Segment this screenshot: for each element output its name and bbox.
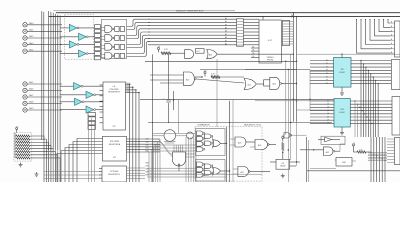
svg-text:Q0: Q0: [327, 100, 329, 102]
svg-text:DA-9: DA-9: [29, 107, 33, 110]
pin U10 top: [341, 54, 342, 58]
wire osc links: [153, 133, 196, 136]
label MDA BUS: [176, 10, 204, 13]
svg-text:DB-3: DB-3: [126, 91, 130, 93]
svg-text:4-17: 4-17: [268, 40, 273, 42]
wire A36 in: [335, 160, 357, 161]
IC R1 edge: [391, 21, 400, 57]
resistor array RP2: [95, 25, 101, 60]
svg-text:LOGIC: LOGIC: [339, 112, 346, 114]
gate A31a: [185, 50, 194, 59]
svg-text:DA-6: DA-6: [29, 88, 33, 91]
svg-text:DA-0: DA-0: [29, 22, 33, 25]
comparator cluster 2: [196, 160, 231, 182]
IC R3 edge: [392, 97, 400, 136]
svg-text:MD2: MD2: [146, 145, 149, 147]
buffer A4 (inverter): [60, 50, 101, 57]
bus jog staircase: [146, 139, 196, 157]
bus left verticals: [49, 11, 61, 150]
svg-text:Q2: Q2: [327, 107, 329, 109]
svg-text:A26: A26: [273, 83, 276, 86]
nand A35: [324, 147, 335, 156]
wire A24-box: [256, 83, 263, 85]
bus cascade U11 right: [350, 100, 392, 137]
bus timer input bundle: [148, 17, 237, 46]
svg-text:MD1: MD1: [146, 142, 149, 144]
wire vertical V290: [290, 54, 291, 160]
wire A30 in: [150, 75, 183, 83]
buffer A7 (inverter): [60, 98, 103, 105]
box DLY U9: [276, 159, 290, 169]
label MDA SELECT: [244, 124, 262, 127]
pin U17 top: [262, 16, 263, 20]
wire mid h71: [310, 70, 334, 72]
buffer A6 (inverter): [60, 91, 103, 98]
svg-text:A31: A31: [209, 53, 212, 56]
wire RP1 fanout down: [30, 136, 60, 182]
wire fanout R1: [356, 19, 391, 53]
dashed box buffers A: [65, 14, 94, 59]
pins U5 left: [100, 85, 104, 123]
wire U6 bundle down: [149, 139, 160, 182]
wire U6 left fanout: [57, 139, 103, 183]
wire A27 out: [250, 170, 271, 172]
svg-text:DA-5: DA-5: [29, 81, 33, 84]
svg-text:Q5: Q5: [327, 116, 329, 118]
box A36: [336, 158, 352, 167]
svg-text:D7: D7: [326, 83, 328, 85]
nand A26b: [270, 77, 282, 89]
svg-text:MD0: MD0: [146, 139, 149, 141]
gate A33: [284, 133, 307, 139]
resistor R8: [354, 149, 371, 153]
junction dots h122: [152, 122, 291, 123]
or gate A31: [207, 50, 217, 59]
svg-text:CE: CE: [252, 47, 254, 49]
wire top rail 1: [56, 12, 400, 14]
wire verticals V226-233: [226, 99, 233, 182]
svg-text:REGISTER B: REGISTER B: [108, 174, 120, 176]
wire mid h100a: [140, 98, 334, 100]
svg-text:Q3: Q3: [327, 110, 329, 112]
comparator cluster 1: [196, 129, 228, 156]
power +5V R8: [352, 143, 356, 149]
ground U9: [281, 174, 285, 178]
pins U11 left: [310, 100, 334, 124]
connector J1 inputs DA0-DA4: [23, 22, 62, 53]
svg-text:Q7: Q7: [327, 123, 329, 125]
ground mark2: [35, 172, 39, 176]
buffer A8 (inverter): [60, 106, 103, 113]
wire mid h61: [145, 60, 297, 62]
pin labels timer left: [237, 19, 260, 46]
wire bus bottom: [49, 150, 61, 182]
wire U9 pins: [270, 162, 300, 166]
wire vertical V306: [307, 137, 309, 182]
svg-text:D3: D3: [326, 70, 328, 72]
IC U17 TIMING PROM: [259, 20, 281, 63]
svg-text:A35: A35: [326, 151, 329, 154]
svg-text:DA-2: DA-2: [29, 35, 33, 38]
svg-text:A27: A27: [241, 171, 244, 174]
svg-text:A30: A30: [186, 79, 189, 82]
svg-text:A26: A26: [258, 144, 261, 147]
svg-text:DELAY: DELAY: [280, 165, 286, 168]
wire verticals x88-97: [89, 115, 95, 182]
wire vertical V291: [296, 122, 297, 166]
wire vertical V178: [178, 100, 180, 133]
svg-text:A36: A36: [342, 161, 345, 164]
connector J2 inputs DA5-DA9: [23, 81, 62, 112]
svg-text:COMPARATOR: COMPARATOR: [197, 124, 210, 127]
nand A29 (vertical): [173, 145, 186, 171]
wire A31 out: [217, 53, 293, 55]
gate row G4 (AND + latches): [101, 53, 124, 60]
IC R4 edge: [387, 138, 400, 165]
svg-text:D5: D5: [326, 76, 328, 78]
or gate A24: [244, 79, 256, 90]
wire bl h171: [44, 172, 102, 179]
svg-text:MS3: MS3: [146, 172, 149, 174]
power +5V R6: [195, 70, 244, 78]
svg-text:MDA SELECT B 15: MDA SELECT B 15: [244, 124, 262, 127]
dashed box MDA SELECT: [195, 127, 262, 182]
buffer A3 (inverter): [60, 41, 101, 48]
svg-text:Q6: Q6: [327, 120, 329, 122]
buffer A2 (inverter): [60, 33, 101, 40]
pins U6 right bundle: [127, 139, 161, 178]
wire h168: [310, 167, 336, 169]
wire U11 gnd: [340, 127, 344, 135]
wire vertical V173: [173, 91, 174, 110]
svg-text:MS4: MS4: [146, 175, 149, 177]
pins U5 right + verticals: [126, 83, 140, 182]
wire top rail 2: [49, 16, 400, 18]
svg-text:212: 212: [112, 126, 115, 128]
label comparator: [197, 124, 210, 127]
wire vertical V288: [288, 69, 289, 182]
svg-text:STE R/WD: STE R/WD: [110, 141, 120, 143]
wire U10 gnd: [340, 87, 344, 95]
wire vertical V217: [216, 59, 218, 127]
IC U5 REGISTER B: [103, 82, 126, 130]
svg-text:REGISTER A: REGISTER A: [109, 143, 121, 146]
IC U6 REGISTER A: [103, 136, 127, 161]
buffer A1 (inverter): [60, 24, 101, 31]
svg-text:MDA BUS TRANSFER BUS: MDA BUS TRANSFER BUS: [176, 10, 204, 13]
bus verticals x186-196: [186, 137, 196, 182]
IC R2 edge: [392, 60, 400, 90]
svg-text:DB-1: DB-1: [126, 86, 130, 88]
svg-text:D4: D4: [326, 73, 328, 75]
capacitor C1: [163, 98, 171, 102]
oscillator Y2: [187, 132, 194, 139]
resistor array RP3: [88, 113, 96, 130]
svg-text:DA-8: DA-8: [29, 101, 33, 104]
nand A27: [233, 167, 250, 177]
wire vertical V310: [309, 70, 310, 111]
svg-text:CE: CE: [252, 56, 254, 58]
svg-text:DA-1: DA-1: [29, 29, 33, 32]
box delay D1: [196, 49, 205, 54]
nand A26: [246, 140, 276, 150]
buffer A5 (inverter): [60, 83, 103, 90]
svg-text:DA-7: DA-7: [29, 94, 33, 97]
svg-text:D0: D0: [326, 60, 328, 62]
wire h54 right: [297, 53, 400, 55]
wire top rail short: [53, 10, 235, 12]
wire long h122: [148, 122, 332, 124]
power +5V R7: [281, 135, 285, 141]
pins U7 left: [99, 169, 102, 179]
svg-text:MD3: MD3: [146, 148, 149, 150]
wire long h171: [307, 170, 400, 172]
gate row G3 (AND + latches): [101, 44, 124, 51]
pins U17 left lower: [251, 47, 259, 58]
svg-text:LOGIC: LOGIC: [339, 72, 346, 74]
resistor pack RP1 (8x): [15, 133, 30, 159]
and gate A25: [230, 137, 246, 147]
svg-text:CE: CE: [252, 50, 254, 52]
resistor R7: [282, 143, 284, 151]
wire vertical pair: [42, 11, 44, 140]
svg-text:L.S.: L.S.: [112, 86, 116, 88]
svg-text:D2: D2: [326, 66, 328, 68]
dashed box RP1: [14, 133, 32, 161]
bus cascade bottom right: [368, 137, 387, 182]
bus cascade U10 right: [351, 60, 391, 137]
ground RP1: [19, 163, 23, 167]
svg-text:MS0: MS0: [146, 163, 149, 165]
IC U10 cyan: [334, 58, 352, 88]
wire vertical V296: [296, 16, 297, 122]
svg-text:Q4: Q4: [327, 113, 329, 115]
svg-text:212: 212: [113, 157, 116, 159]
svg-text:MS1: MS1: [146, 166, 149, 168]
svg-text:DA-4: DA-4: [29, 48, 33, 51]
wire mid h69: [200, 69, 310, 71]
wire A30 out: [196, 79, 244, 83]
wire A26b out: [281, 83, 297, 84]
wire bh168: [147, 168, 226, 177]
buffer A34: [318, 137, 340, 142]
box X1: [264, 80, 270, 86]
wire h69 ext: [245, 68, 297, 70]
svg-text:OPTIONS: OPTIONS: [110, 171, 119, 173]
labels bottom left: [146, 163, 149, 177]
wire A35 io: [300, 144, 345, 151]
gate row G2 (AND + latches): [101, 35, 124, 42]
arrow mark: [291, 15, 294, 18]
wire vertical V152: [152, 54, 154, 182]
svg-text:A25: A25: [238, 142, 241, 145]
wire vertical V168: [168, 54, 170, 122]
box buffer A34: [321, 136, 345, 144]
svg-text:A24: A24: [248, 84, 251, 87]
wire vertical V285: [285, 61, 286, 135]
svg-text:DA-3: DA-3: [29, 42, 33, 45]
svg-text:D1: D1: [326, 63, 328, 65]
nand A30: [183, 72, 196, 86]
svg-text:MS2: MS2: [146, 169, 149, 171]
wire vertical V293: [293, 12, 294, 122]
gate row G1 (AND + latches): [101, 26, 124, 33]
wire long h110: [297, 109, 335, 111]
wire R7 down: [282, 151, 283, 160]
IC U7 OPTIONS REGISTER: [102, 166, 127, 182]
power +5V RP1: [15, 126, 19, 132]
pins U17 right: [283, 20, 294, 45]
svg-text:REGISTER B: REGISTER B: [108, 92, 120, 94]
pins U10 left: [310, 60, 334, 85]
power +5V R5: [157, 46, 185, 54]
wire long h174: [150, 173, 262, 175]
svg-text:Q1: Q1: [327, 104, 329, 106]
oscillator Y1: [164, 130, 176, 143]
wire mid h100b: [255, 100, 334, 102]
svg-text:D6: D6: [326, 80, 328, 82]
box gate cluster: [101, 19, 126, 58]
svg-text:DB-2: DB-2: [126, 88, 130, 90]
svg-text:MD4: MD4: [146, 151, 149, 153]
IC U11 cyan: [334, 99, 350, 128]
wire fanout arcs: [127, 19, 150, 56]
